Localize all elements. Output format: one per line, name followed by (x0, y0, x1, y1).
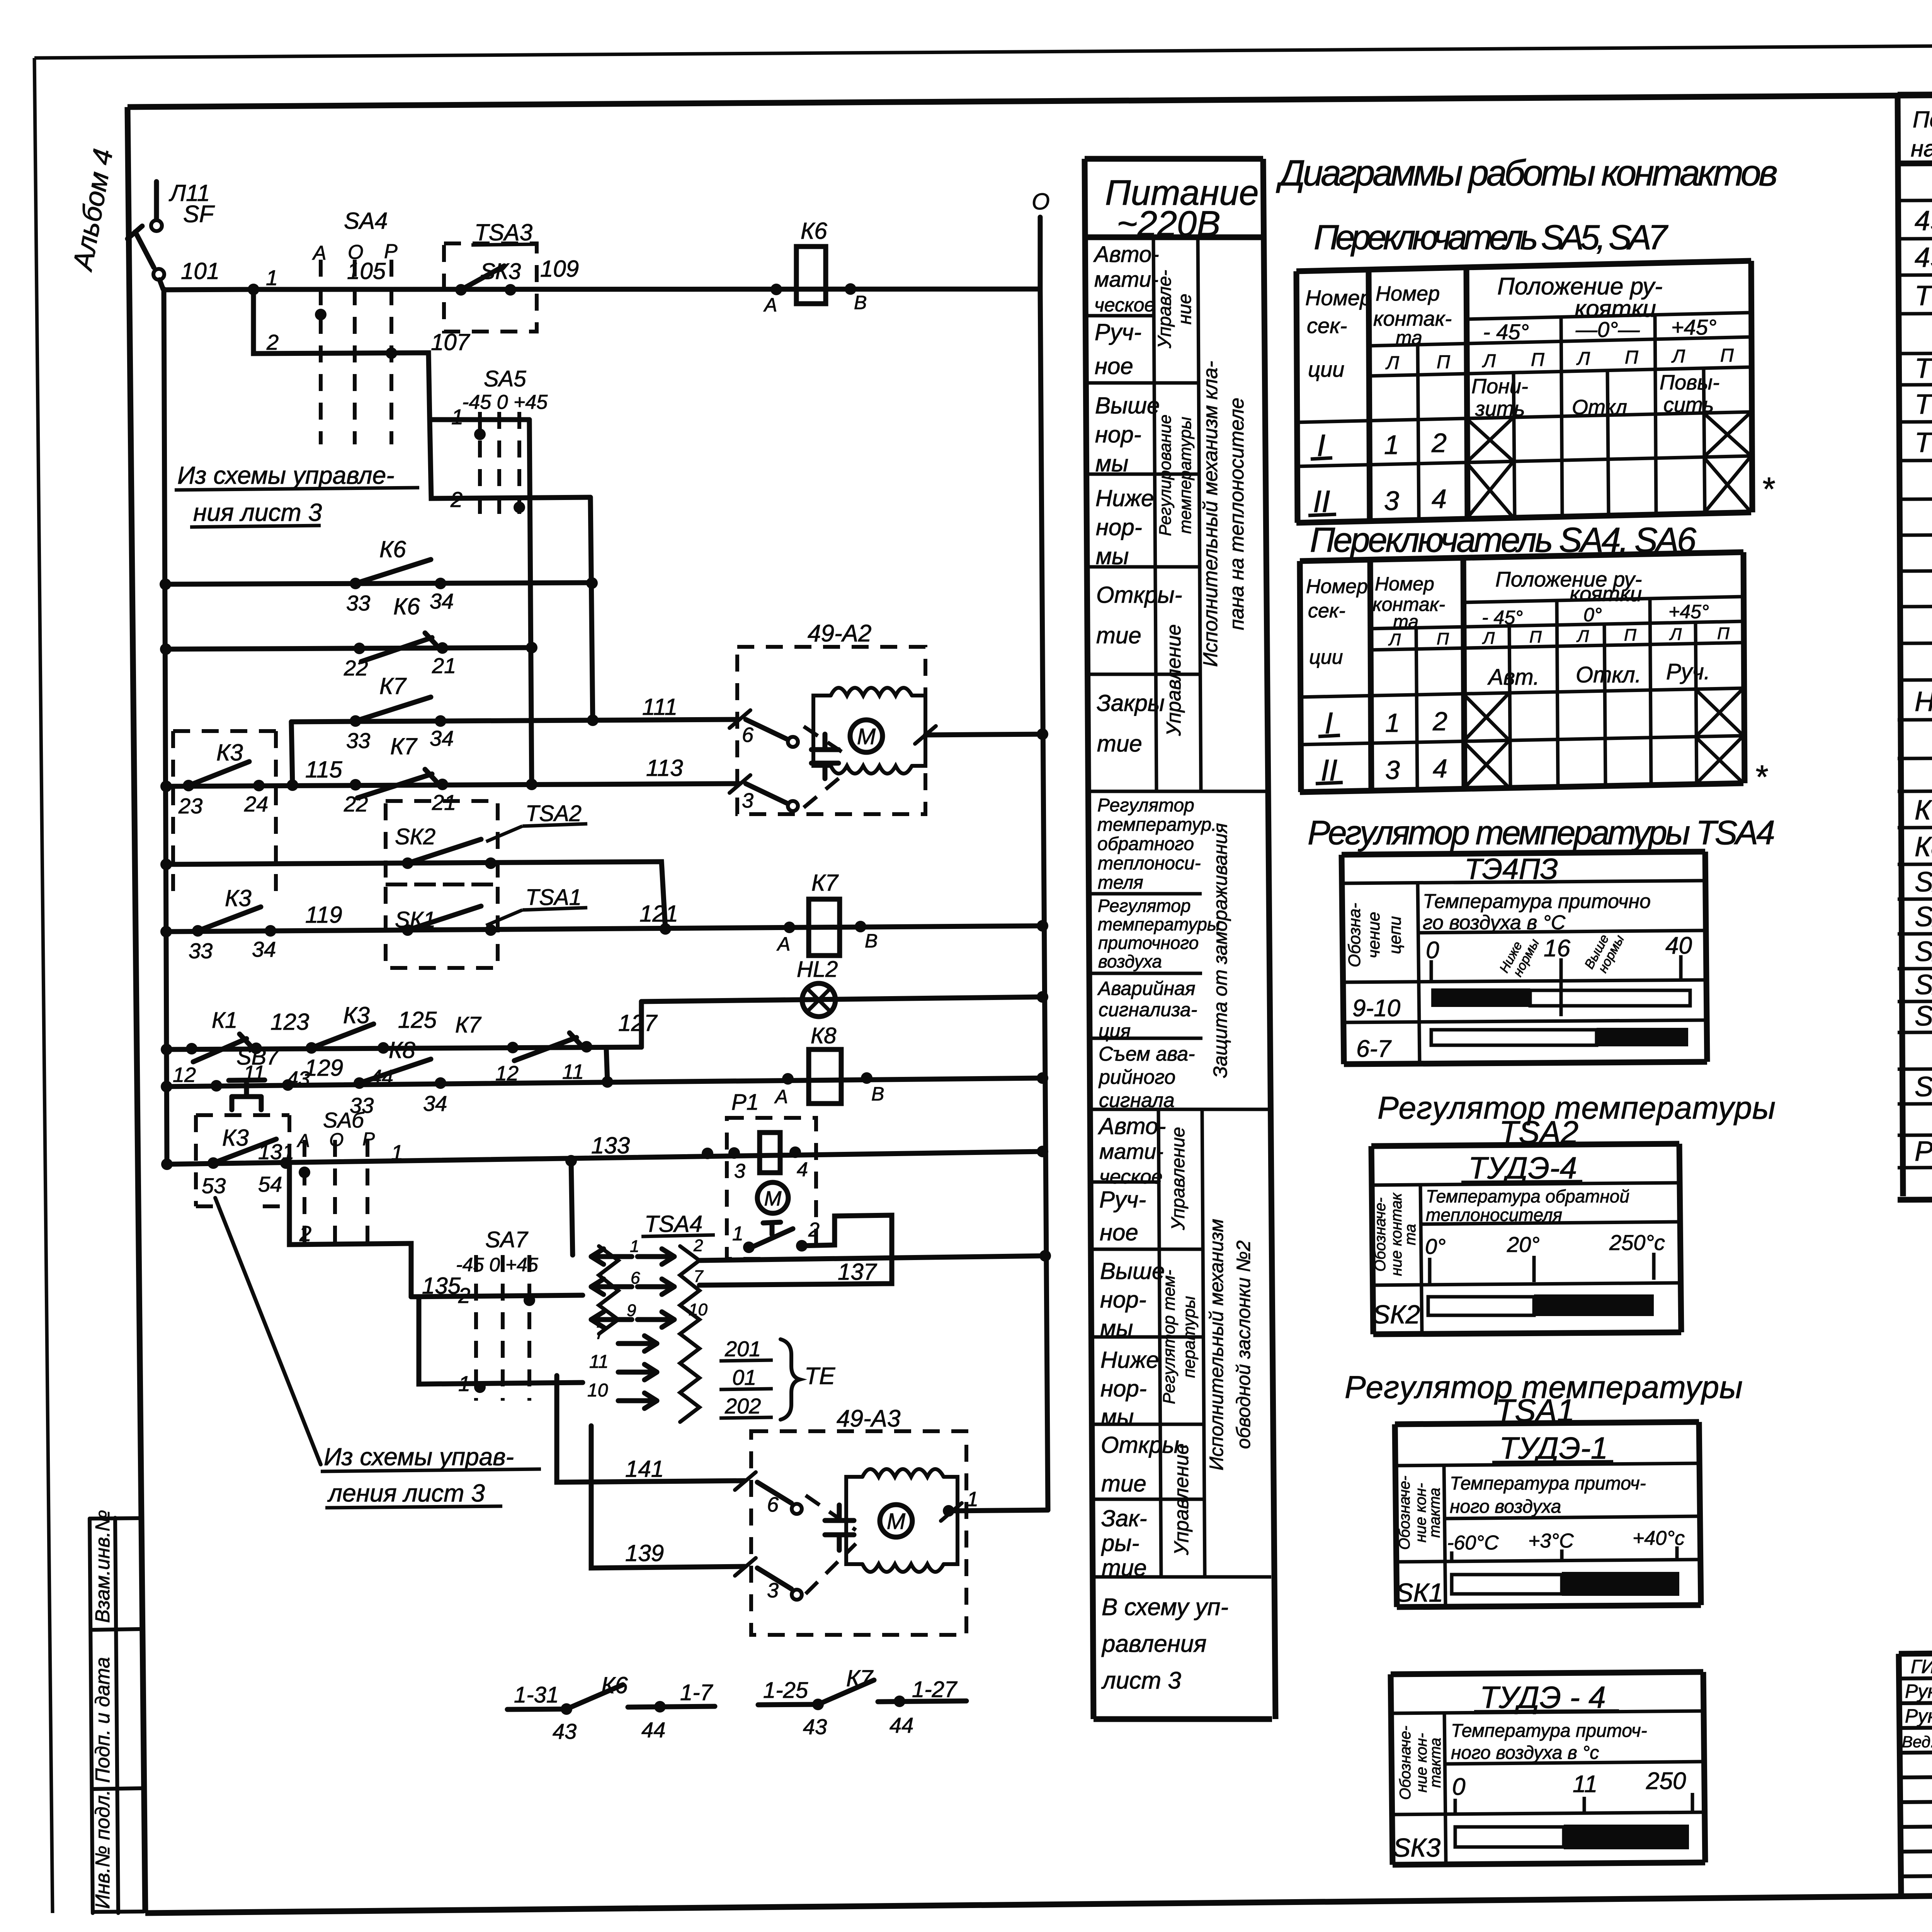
svg-text:ческое: ческое (1094, 294, 1155, 316)
svg-text:ТЕ: ТЕ (804, 1363, 835, 1389)
svg-text:Обозначе-: Обозначе- (1396, 1476, 1413, 1550)
svg-text:22: 22 (344, 656, 368, 680)
thermostat TSA2 dashed box (386, 801, 498, 884)
svg-text:43: 43 (553, 1719, 577, 1743)
svg-text:ции: ции (1309, 646, 1343, 668)
svg-text:1-31: 1-31 (514, 1682, 559, 1708)
contact K3 43-44 (306, 1042, 317, 1054)
svg-text:Руч-: Руч- (1095, 319, 1141, 345)
junction dots on 133 rail at P1 (702, 1148, 713, 1159)
svg-text:11: 11 (589, 1352, 609, 1372)
svg-text:1: 1 (391, 1140, 403, 1165)
svg-text:1-7: 1-7 (680, 1680, 714, 1705)
svg-text:равления: равления (1101, 1631, 1206, 1657)
svg-text:К7: К7 (379, 673, 407, 699)
coil K8 terminals (782, 1073, 794, 1085)
svg-text:зить: зить (1475, 397, 1525, 420)
svg-text:1-27: 1-27 (912, 1677, 958, 1702)
brace TE (781, 1339, 800, 1420)
svg-text:250°с: 250°с (1609, 1230, 1665, 1255)
svg-text:Зак-: Зак- (1101, 1505, 1147, 1531)
svg-text:SА4: SА4 (344, 208, 388, 234)
switch SA5 dashed poles (480, 412, 519, 514)
svg-text:- 45°: - 45° (1482, 607, 1523, 628)
svg-text:ТУДЭ-1: ТУДЭ-1 (1499, 1431, 1608, 1465)
coil loop wiring (813, 696, 925, 766)
wire rail 119/121 (166, 926, 1043, 932)
svg-text:ТSА3: ТSА3 (1915, 389, 1932, 420)
svg-text:Вед.инж.: Вед.инж. (1902, 1733, 1932, 1751)
svg-text:201: 201 (724, 1337, 761, 1361)
svg-text:Повы-: Повы- (1660, 371, 1719, 394)
svg-text:та: та (1393, 612, 1418, 632)
relay contact K3 53-54 dashed box (196, 1115, 289, 1206)
svg-text:В: В (854, 292, 867, 313)
svg-text:Диаграммы работы контактов: Диаграммы работы контактов (1276, 153, 1778, 194)
wire 127 riser (639, 1002, 644, 1047)
svg-text:SВ7: SВ7 (236, 1044, 280, 1070)
wire rail K6 33-34 (165, 583, 593, 584)
svg-text:НL2: НL2 (1915, 686, 1932, 717)
stator coil bottom (831, 766, 912, 774)
svg-text:Л: Л (1576, 627, 1589, 646)
svg-text:сигнализа-: сигнализа- (1099, 999, 1197, 1020)
svg-text:температур.: температур. (1097, 815, 1217, 835)
svg-text:П: П (1625, 347, 1638, 368)
svg-text:тие: тие (1096, 622, 1141, 648)
svg-text:16: 16 (1544, 935, 1570, 962)
svg-text:SК2: SК2 (1372, 1300, 1420, 1329)
svg-text:тие: тие (1102, 1555, 1147, 1581)
svg-text:Исполнительный механизм: Исполнительный механизм (1206, 1219, 1227, 1470)
svg-text:1: 1 (732, 1223, 743, 1245)
svg-text:ТSА2,: ТSА2, (1915, 353, 1932, 384)
blade from 6 (746, 719, 786, 739)
contact SK1 (402, 924, 413, 936)
svg-text:2: 2 (266, 330, 279, 354)
mechanical link dashed (806, 1495, 856, 1594)
svg-text:SАб: SАб (323, 1108, 365, 1132)
wire rail SB7-129-K8 (167, 1078, 1043, 1087)
svg-text:1: 1 (451, 405, 463, 429)
svg-text:23: 23 (178, 794, 202, 818)
svg-text:49-А2: 49-А2 (808, 620, 871, 647)
svg-text:Р: Р (384, 240, 398, 263)
SA7 pole tap dot rail1 (474, 1381, 486, 1393)
svg-text:Р1: Р1 (731, 1090, 759, 1115)
wire Л11 stub (154, 182, 159, 219)
wire 1-31 (507, 1709, 566, 1709)
svg-text:мы: мы (1095, 451, 1128, 476)
thermostat TSA3 dashed box (444, 243, 537, 332)
svg-text:44: 44 (889, 1713, 913, 1737)
svg-text:11: 11 (1573, 1771, 1597, 1798)
svg-text:ного воздуха в °с: ного воздуха в °с (1451, 1743, 1599, 1763)
SA4 pole A tap dot (315, 309, 327, 320)
svg-text:Л: Л (1671, 346, 1685, 367)
svg-text:теплоносителя: теплоносителя (1426, 1205, 1562, 1225)
svg-text:ТSА1: ТSА1 (1915, 281, 1932, 311)
svg-text:Л: Л (1576, 349, 1590, 369)
capacitor plates (825, 1505, 854, 1550)
contact K7 33-34 (350, 715, 361, 727)
svg-text:А: А (763, 294, 777, 316)
svg-text:Ниже: Ниже (1100, 1347, 1159, 1373)
sensor TE arrows 7 11 10 (618, 1336, 657, 1351)
svg-text:обратного: обратного (1097, 834, 1194, 854)
svg-text:SК1: SК1 (1396, 1578, 1443, 1607)
wire rail K7 33-34 (111) (291, 719, 737, 722)
wire rail 2 lower (289, 1165, 411, 1297)
svg-text:139: 139 (625, 1540, 664, 1566)
wire 1-25 (758, 1704, 818, 1705)
svg-text:К6: К6 (393, 594, 420, 619)
svg-text:Л: Л (1669, 625, 1682, 644)
svg-text:П: П (1531, 350, 1544, 370)
svg-text:133: 133 (591, 1133, 630, 1158)
svg-text:2: 2 (808, 1219, 820, 1241)
svg-text:Обозначе-: Обозначе- (1397, 1726, 1414, 1800)
svg-text:SК2: SК2 (395, 824, 435, 849)
svg-text:К7: К7 (846, 1665, 874, 1691)
svg-text:ТSА3: ТSА3 (474, 219, 532, 245)
svg-text:131: 131 (258, 1139, 294, 1164)
contact slash 6 (730, 710, 750, 728)
svg-text:А: А (776, 933, 790, 955)
svg-text:11: 11 (562, 1060, 584, 1083)
contact slash output (915, 726, 936, 744)
svg-text:К7: К7 (455, 1012, 482, 1037)
svg-text:А: А (312, 242, 327, 264)
svg-text:Ниже: Ниже (1095, 485, 1154, 511)
svg-text:нор-: нор- (1095, 422, 1141, 447)
svg-text:ное: ное (1100, 1219, 1138, 1245)
pulser P1 dashed box (727, 1118, 816, 1259)
actuator 49-A2 dashed box (737, 647, 925, 814)
wire 141 (557, 1376, 745, 1482)
coil K7 terminals (784, 922, 795, 933)
contact SK2 (402, 857, 413, 869)
wire rail 131-133 (167, 1151, 1043, 1164)
svg-text:Номер: Номер (1305, 286, 1372, 310)
svg-text:2: 2 (693, 1236, 703, 1255)
svg-text:ТSА4: ТSА4 (1915, 427, 1932, 458)
svg-text:Управление: Управление (1168, 1127, 1189, 1231)
svg-text:0°: 0° (1583, 604, 1602, 626)
svg-text:101: 101 (181, 258, 219, 284)
svg-text:Из схемы управ-: Из схемы управ- (324, 1443, 514, 1471)
wire rail K1-123-K3-125-K7-127 (167, 1047, 641, 1049)
SA6 pole A tap dot (299, 1167, 310, 1178)
regulator table ТЭ4П3 (1342, 852, 1707, 1064)
wire vertical from SA5 rail1 down (529, 420, 532, 786)
svg-text:4: 4 (797, 1158, 808, 1181)
contact K6 22-21 changeover (354, 643, 365, 654)
coil K6 terminal dots A B (770, 284, 782, 295)
svg-text:начение: начение (1911, 136, 1932, 162)
svg-text:49-А3: 49-А3 (1915, 242, 1932, 273)
svg-text:0: 0 (1426, 937, 1439, 964)
stator coil bottom (862, 1564, 944, 1572)
contact slash 3 (730, 775, 750, 793)
svg-text:1: 1 (967, 1488, 978, 1511)
svg-text:та: та (1396, 327, 1422, 349)
svg-text:-45 0 +45: -45 0 +45 (456, 1254, 538, 1276)
svg-text:тие: тие (1097, 731, 1142, 757)
svg-text:24: 24 (244, 792, 268, 816)
svg-text:+40°с: +40°с (1633, 1527, 1685, 1549)
motor M of 49-A2 (850, 720, 883, 752)
sheet thin border top (34, 41, 1932, 58)
svg-text:54: 54 (258, 1172, 282, 1196)
junction SA5rail2/K6 rail (586, 577, 598, 589)
svg-text:К7: К7 (811, 870, 839, 896)
svg-text:141: 141 (625, 1456, 664, 1482)
svg-text:коятки: коятки (1570, 582, 1642, 606)
svg-text:33: 33 (189, 939, 213, 963)
svg-text:Л: Л (1385, 353, 1399, 373)
svg-text:Рук.гр.: Рук.гр. (1905, 1705, 1932, 1727)
svg-text:М: М (887, 1509, 906, 1534)
svg-text:1-25: 1-25 (763, 1678, 808, 1703)
svg-text:Номер: Номер (1375, 573, 1434, 595)
svg-text:К3: К3 (216, 740, 243, 765)
svg-text:К6: К6 (601, 1672, 628, 1698)
thermal contact 1-2 of P1 (743, 1242, 755, 1253)
svg-text:*: * (1761, 471, 1775, 508)
TITLEBLOCK (1899, 1506, 1932, 1896)
svg-text:мы: мы (1100, 1315, 1133, 1341)
svg-text:нор-: нор- (1100, 1287, 1146, 1313)
svg-text:приточного: приточного (1098, 933, 1199, 953)
svg-text:К7: К7 (390, 733, 418, 759)
svg-text:сить: сить (1663, 393, 1714, 417)
title block outer (1899, 1647, 1932, 1896)
svg-text:34: 34 (423, 1091, 447, 1116)
svg-text:1: 1 (458, 1371, 470, 1396)
main frame top (128, 90, 1932, 107)
svg-text:П: П (1717, 624, 1730, 643)
svg-text:ТSА2: ТSА2 (526, 801, 582, 826)
SA7 pole tap dot rail2 (524, 1294, 535, 1306)
svg-text:ГИП: ГИП (1911, 1656, 1932, 1677)
svg-text:сек-: сек- (1308, 600, 1345, 622)
wire SA7 rail 1 (411, 1297, 583, 1384)
svg-text:М: М (764, 1187, 782, 1210)
svg-text:ческое: ческое (1099, 1166, 1163, 1188)
svg-text:К6: К6 (801, 218, 827, 244)
svg-text:мы: мы (1096, 543, 1129, 569)
svg-text:Регулятор: Регулятор (1098, 896, 1190, 916)
svg-text:К6,К7: К6,К7 (1915, 795, 1932, 826)
switch SA6 dashed poles (304, 1140, 367, 1247)
svg-text:250: 250 (1646, 1768, 1686, 1794)
TSA4 arrows upper (591, 1249, 632, 1264)
svg-text:Авто-: Авто- (1098, 1113, 1166, 1139)
svg-text:119: 119 (305, 902, 342, 928)
wire rail TSA4 to bus (after P1) (699, 1256, 1045, 1260)
svg-text:Съем ава-: Съем ава- (1099, 1043, 1195, 1065)
svg-text:SК3: SК3 (1393, 1833, 1440, 1862)
svg-text:202: 202 (724, 1394, 761, 1418)
wire node1 to rail 2 (253, 289, 430, 420)
main frame left (128, 107, 145, 1913)
svg-text:20°: 20° (1507, 1232, 1540, 1257)
left margin column verticals (90, 1519, 93, 1913)
circuit breaker SF (151, 220, 162, 231)
svg-text:та: та (1402, 1224, 1419, 1245)
svg-text:44: 44 (641, 1718, 665, 1742)
svg-text:22: 22 (344, 792, 368, 816)
svg-text:Авто-: Авто- (1093, 242, 1159, 267)
svg-text:*: * (1754, 759, 1768, 796)
svg-text:Выше: Выше (1100, 1258, 1165, 1284)
svg-text:21: 21 (432, 653, 456, 678)
svg-text:воздуха: воздуха (1098, 951, 1162, 971)
blade from 3 (757, 1568, 791, 1589)
svg-text:49-А3: 49-А3 (837, 1405, 900, 1432)
svg-text:Обозначе-: Обозначе- (1372, 1197, 1389, 1272)
svg-text:-60°С: -60°С (1447, 1532, 1499, 1554)
svg-text:рийного: рийного (1098, 1066, 1175, 1088)
svg-text:К8: К8 (1915, 832, 1932, 862)
svg-text:К8: К8 (811, 1023, 836, 1048)
svg-text:Температура приточно: Температура приточно (1423, 890, 1651, 913)
svg-text:53: 53 (202, 1173, 226, 1198)
contact K8 33-34 (354, 1077, 365, 1089)
svg-text:Температура обратной: Температура обратной (1426, 1186, 1629, 1206)
node 1 junction (248, 284, 259, 295)
svg-text:ТSА4: ТSА4 (645, 1211, 702, 1237)
wire vertical from SA5 rail2 down (590, 497, 593, 722)
wire rail HL2 (641, 997, 1043, 1002)
svg-text:Температура приточ-: Температура приточ- (1450, 1473, 1646, 1494)
svg-text:Управление: Управление (1170, 1443, 1193, 1555)
contact K3 23-24 (183, 780, 194, 791)
svg-text:111: 111 (642, 694, 677, 720)
svg-text:127: 127 (618, 1010, 658, 1036)
svg-text:109: 109 (540, 256, 579, 282)
svg-text:П: П (1529, 628, 1542, 646)
svg-text:Руч.: Руч. (1666, 659, 1710, 684)
parts list table (1898, 91, 1932, 95)
regulator TSA4 left sawtooth (599, 1246, 618, 1334)
svg-text:В: В (871, 1083, 884, 1105)
svg-text:такта: такта (1426, 1488, 1443, 1538)
svg-text:Температура приточ-: Температура приточ- (1451, 1721, 1647, 1741)
svg-text:Руч-: Руч- (1099, 1187, 1146, 1213)
svg-text:2: 2 (458, 1283, 470, 1308)
svg-text:К3: К3 (222, 1125, 249, 1151)
svg-text:Авт.: Авт. (1487, 665, 1539, 690)
svg-text:Управле-: Управле- (1155, 270, 1175, 349)
contact slash 139 (735, 1558, 756, 1576)
svg-text:2: 2 (299, 1221, 311, 1246)
svg-text:Регулирование: Регулирование (1156, 415, 1175, 536)
svg-text:121: 121 (639, 901, 678, 927)
wire rail SK2 (166, 862, 665, 929)
wire 1-7 (628, 1706, 715, 1707)
SA4 pole P tap dot on rail 2 (386, 347, 397, 359)
svg-text:К3: К3 (343, 1002, 370, 1028)
svg-text:цепи: цепи (1386, 916, 1405, 954)
svg-text:теля: теля (1098, 872, 1143, 893)
svg-text:сек-: сек- (1307, 313, 1347, 338)
svg-text:такта: такта (1427, 1738, 1444, 1788)
regulator TSA4 right sawtooth (680, 1246, 699, 1422)
contact K3 53-54 (207, 1157, 219, 1169)
svg-text:Рук.бр.: Рук.бр. (1905, 1680, 1932, 1702)
svg-text:ние: ние (1175, 294, 1195, 325)
svg-text:Подп. и дата: Подп. и дата (92, 1657, 114, 1783)
svg-text:ции: ции (1308, 357, 1344, 381)
junction K6-21 rail / SA5 vertical (526, 642, 537, 653)
svg-text:Обозна-: Обозна- (1345, 903, 1364, 968)
svg-text:Регулятор тем-: Регулятор тем- (1160, 1270, 1179, 1404)
svg-text:К3: К3 (225, 885, 252, 911)
left margin box dividers (90, 1518, 139, 1519)
svg-text:О: О (329, 1130, 344, 1150)
svg-text:Откл.: Откл. (1576, 662, 1641, 687)
svg-text:Взам.инв.№: Взам.инв.№ (92, 1510, 114, 1623)
svg-text:О: О (1032, 189, 1050, 214)
svg-text:ры-: ры- (1101, 1530, 1139, 1556)
wire rail 113/115 (166, 784, 739, 786)
mechanical link dashed (804, 726, 850, 808)
svg-text:1: 1 (266, 265, 278, 290)
output contact of 49-A3 (943, 1505, 954, 1517)
svg-text:1: 1 (630, 1237, 639, 1256)
svg-text:4: 4 (1432, 484, 1447, 514)
svg-text:Номер: Номер (1376, 282, 1440, 305)
svg-text:107: 107 (431, 329, 471, 355)
motor M of 49-A3 (880, 1505, 912, 1537)
left bus vertical (164, 289, 167, 1164)
node O stub (1038, 217, 1043, 289)
svg-text:чение: чение (1364, 912, 1383, 958)
contact K3 33-34 (192, 925, 204, 937)
svg-text:Л: Л (1482, 629, 1495, 648)
junction 113/SA5a vertical (526, 779, 537, 790)
svg-text:113: 113 (646, 755, 683, 781)
wire 1-27 (878, 1701, 966, 1702)
svg-text:НL2: НL2 (797, 957, 838, 982)
svg-text:49-А2: 49-А2 (1915, 206, 1932, 236)
svg-text:ТУДЭ - 4: ТУДЭ - 4 (1480, 1680, 1606, 1714)
svg-text:3: 3 (1385, 755, 1400, 785)
svg-text:34: 34 (430, 589, 454, 613)
svg-text:SВ7: SВ7 (1915, 1001, 1932, 1032)
svg-text:теплоноси-: теплоноси- (1098, 853, 1201, 874)
relay contact K3 23-24 dashed box (173, 731, 276, 900)
svg-text:мати-: мати- (1094, 267, 1158, 291)
wire 139 (591, 1426, 745, 1568)
svg-text:1: 1 (1384, 430, 1399, 460)
svg-text:В схему уп-: В схему уп- (1102, 1594, 1228, 1621)
right bus vertical (1040, 289, 1048, 1510)
svg-text:Р: Р (362, 1129, 375, 1150)
svg-text:137: 137 (838, 1259, 878, 1285)
leader line to note (215, 1198, 321, 1464)
svg-text:129: 129 (304, 1055, 343, 1081)
stator coil top (862, 1469, 944, 1477)
svg-text:ния лист 3: ния лист 3 (193, 498, 322, 526)
svg-text:9-10: 9-10 (1352, 995, 1400, 1022)
svg-text:3: 3 (734, 1160, 745, 1182)
wire SA5 rail 1 (430, 417, 529, 422)
svg-text:температуры: температуры (1176, 417, 1195, 534)
svg-text:П: П (1437, 629, 1449, 648)
